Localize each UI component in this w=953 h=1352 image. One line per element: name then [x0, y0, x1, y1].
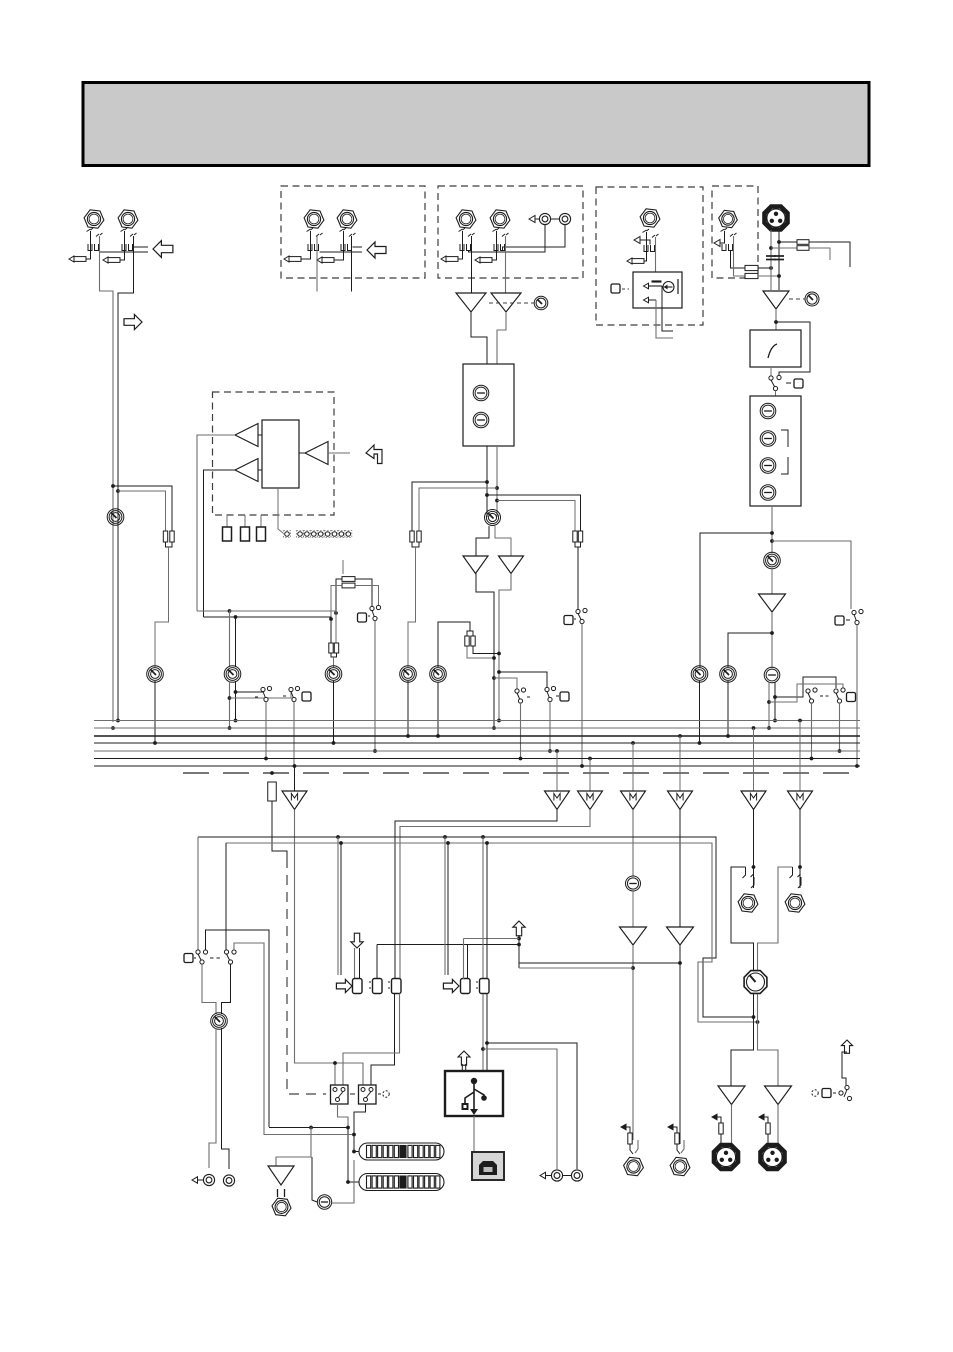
rec out arrow	[192, 1177, 198, 1183]
LED meter R	[359, 1174, 444, 1191]
jack phones L	[738, 894, 758, 912]
select box SB2	[359, 1085, 377, 1104]
resistor R-bal-a	[465, 636, 469, 646]
ref arrow A1	[284, 256, 301, 262]
wire twotrack b	[487, 1043, 577, 1169]
wire S-rec-a out	[202, 964, 216, 1014]
node M6 pickup	[752, 726, 756, 730]
amp U2 line R	[491, 293, 521, 312]
connector K1	[353, 979, 363, 994]
node M1 pickup	[293, 764, 297, 768]
ref bent arrow fx R	[668, 1124, 677, 1133]
node J pair R bus	[116, 719, 120, 723]
node M6 jack	[752, 865, 756, 869]
wire branch L to resistor	[113, 486, 172, 531]
dash S-lowcut	[786, 382, 791, 384]
node S-ch-b bus	[519, 757, 523, 761]
RCA 2track R	[571, 1170, 582, 1181]
wire hp pot link	[332, 1160, 354, 1203]
node mic a	[769, 266, 773, 270]
wire RDa to node	[758, 267, 771, 269]
pot PB channelB mon	[430, 666, 447, 683]
dip option circles	[284, 531, 352, 538]
pot P10 pan	[764, 667, 780, 683]
rec arrow wire	[198, 1179, 204, 1181]
jack J1 (line in L)	[84, 210, 104, 228]
switch S-lowcut	[769, 375, 781, 390]
node M7 pickup	[798, 719, 802, 723]
jack J2 (line in R)	[118, 210, 138, 228]
wire fxout L r	[630, 1144, 633, 1154]
wire bal to potB	[438, 622, 470, 667]
wire aux sw a	[236, 690, 264, 692]
node st-a rail2	[485, 493, 489, 497]
jack J1 switching contacts	[87, 228, 103, 251]
wire alt rail b	[234, 943, 264, 1135]
jack C1 contacts	[643, 229, 659, 252]
wire S-pan-b bus	[839, 703, 841, 751]
node pad a	[777, 240, 781, 244]
dash S-ch-a	[556, 695, 559, 697]
wire meter1 stub	[354, 1135, 359, 1152]
resistor R-pad-a	[797, 240, 809, 245]
bus line 4	[94, 742, 860, 744]
switch S-pan-b	[834, 688, 845, 703]
node PB bus	[436, 734, 440, 738]
node mic b	[777, 274, 781, 278]
jack A1	[304, 210, 324, 228]
wire M6 out	[753, 810, 755, 889]
mute gate bar	[652, 280, 662, 282]
wire P11 down a	[229, 681, 231, 728]
wire RDb to node	[758, 275, 779, 277]
bent arrow fx return	[366, 445, 382, 464]
capacitor C2 b	[774, 259, 784, 261]
resistor R-sum-a	[163, 531, 167, 542]
wire B2 ring down	[505, 236, 507, 293]
node U7 tap	[631, 966, 635, 970]
switch S-rec-a	[196, 950, 208, 964]
wire K3 out a	[371, 994, 395, 1086]
wire A lower	[320, 251, 363, 253]
XLR main out R	[761, 1145, 785, 1169]
node aux sw tap a	[234, 690, 238, 694]
switch S-aux1	[261, 686, 272, 701]
small box L2	[241, 527, 250, 541]
wire M1 out	[295, 810, 336, 1086]
SB2 contacts	[361, 1088, 373, 1102]
wire mon line b	[264, 1134, 354, 1136]
pot P1 stereo level	[107, 509, 124, 526]
lowcut curve	[768, 344, 777, 358]
bus line 2	[94, 727, 860, 729]
resistor R-D-b	[745, 273, 758, 278]
wire S-mute bus	[856, 625, 858, 767]
node bal a	[492, 656, 496, 660]
switch S-ch-a	[545, 686, 556, 701]
wire M7 out	[799, 810, 801, 889]
USB trident icon	[462, 1078, 487, 1115]
M-amp M1 main	[282, 791, 307, 810]
wire C1 ring to box	[655, 237, 657, 281]
dash S-rec	[210, 957, 222, 959]
jack A2 contacts	[340, 228, 356, 251]
wire pan L	[768, 682, 770, 728]
wire st merge	[412, 542, 419, 547]
switch S-pan-a	[806, 688, 817, 703]
jack B2 contacts	[493, 228, 509, 251]
dashed aux box	[213, 392, 335, 515]
node rail tap5	[481, 835, 485, 839]
wire fx pair down a	[335, 613, 337, 643]
wire U11 out	[777, 1105, 779, 1146]
arrow at D1	[714, 240, 720, 247]
EQ bracket high	[781, 430, 788, 447]
wire U1 out	[471, 312, 487, 364]
node pan L bus	[767, 726, 771, 730]
wire play pair b	[359, 948, 361, 979]
wire contacts to arrow lower	[100, 251, 149, 253]
EQ pot high2	[760, 431, 776, 447]
wire usb pair b	[486, 843, 488, 978]
amp U9 monitor	[268, 1166, 294, 1185]
switch S-aux2	[289, 686, 300, 701]
bus line 5	[94, 750, 860, 752]
wire twotrack a	[483, 1049, 557, 1169]
wire tap y963	[519, 962, 680, 964]
wire A2 tip	[334, 231, 344, 260]
amp U10 spk L	[718, 1086, 745, 1105]
SB1 contacts	[333, 1088, 345, 1102]
RCA 2track L	[551, 1170, 562, 1181]
ref bent arrow L	[712, 1114, 721, 1123]
node pan R bus	[773, 719, 777, 723]
open arrow above usb box	[458, 1051, 470, 1065]
wire pad top2	[809, 242, 850, 267]
EQ box mic channel	[750, 396, 801, 506]
wire mute out gray	[656, 300, 673, 338]
pot P11 monitor lvl	[224, 666, 241, 683]
mute arrow 2	[644, 297, 649, 303]
switch S-fx	[370, 605, 381, 620]
arrow wire D1	[720, 231, 725, 243]
wire mon merge	[575, 542, 581, 547]
wire bal bracket	[467, 631, 473, 636]
open arrow to rec	[336, 979, 352, 992]
node P12 bus	[332, 741, 336, 745]
wire rec pair a	[209, 1028, 216, 1168]
gang dash K3b	[388, 987, 390, 989]
open arrow usb send	[513, 921, 525, 936]
wire J1 ring down	[100, 236, 114, 722]
open arrow phantom	[841, 1040, 852, 1053]
dashed box D	[712, 186, 758, 278]
node U3 bus	[492, 726, 496, 730]
wire M3 in	[589, 759, 591, 792]
node branch R	[116, 489, 120, 493]
node U8 tap	[678, 961, 682, 965]
wire tap2 down	[340, 843, 342, 975]
node lowcut in	[774, 320, 778, 324]
wire fx jack L	[635, 1140, 638, 1153]
node mic split2	[770, 539, 774, 543]
wire P5 split R	[495, 526, 511, 556]
wire tap4 down	[447, 843, 449, 975]
wire P16 down b	[758, 994, 779, 1086]
node S-fx bus	[373, 749, 377, 753]
wire fx res right a	[355, 579, 372, 606]
jack monitor out	[272, 1198, 291, 1216]
wire D1 a	[731, 251, 746, 268]
gain pot P7	[805, 292, 819, 306]
wire EQ out pair a	[486, 446, 488, 517]
wire mic mute tap	[772, 541, 851, 609]
dash S-rec2	[194, 957, 196, 959]
wire P11 down b	[235, 681, 237, 721]
LED meter L	[359, 1143, 444, 1160]
node st-a rail1	[485, 480, 489, 484]
resistor R-mon-a	[573, 531, 577, 542]
mic preamp U5	[763, 291, 789, 309]
capacitor C1 b	[766, 259, 776, 261]
RCA arrow	[529, 216, 535, 223]
dash link boxes	[350, 1093, 357, 1095]
wire fx jack R	[681, 1140, 684, 1153]
small box L1	[223, 527, 232, 541]
pot P14 rec level	[211, 1013, 228, 1030]
node rail tap4	[446, 841, 450, 845]
wire S-aux1 bus	[265, 702, 267, 759]
dash S-aux1	[255, 696, 258, 698]
wire U4 out	[499, 574, 511, 721]
wire fx pair down b	[330, 619, 332, 643]
wire A2 link	[258, 469, 262, 471]
node usb send b	[517, 943, 521, 947]
resistor R-st-a	[410, 531, 414, 542]
wire main to sel2	[335, 1063, 363, 1085]
dashed gang U2-P3	[489, 302, 534, 304]
wire aux L right	[197, 610, 230, 612]
wire usb send v	[518, 935, 520, 968]
wire S-mon to bus	[581, 624, 583, 767]
dash S-aux2	[283, 695, 286, 697]
node S-ch-a bus	[548, 749, 552, 753]
wire pan tap b	[494, 678, 517, 689]
jack A2	[337, 210, 357, 228]
wire meter2 stub	[348, 1128, 359, 1183]
EQ pot comp	[760, 403, 776, 419]
resistor R-fxout-L	[628, 1133, 632, 1144]
wire A2 out	[204, 470, 236, 617]
wire K4 feed b	[467, 945, 469, 980]
wire U5 out	[775, 309, 777, 330]
wire M5 out	[679, 810, 681, 928]
amp U4 post R	[499, 556, 524, 574]
wire lowcut bypass	[776, 322, 810, 376]
wire fx res left b	[331, 586, 342, 620]
bus line 3	[94, 735, 860, 737]
resistor R-out-L	[719, 1123, 723, 1134]
wire mute out dark	[662, 286, 673, 331]
wire K2 feed	[376, 945, 378, 980]
capacitor C2	[774, 255, 784, 257]
node U4 bus	[497, 719, 501, 723]
pot P8 aux	[691, 666, 708, 683]
wire balance res R	[473, 646, 499, 654]
jack D1 contacts	[721, 228, 737, 251]
pot P13 phones lvl	[626, 876, 641, 891]
mute channel	[649, 285, 662, 287]
wire P5 split L	[476, 526, 489, 556]
mute arrow 1	[644, 283, 649, 289]
wire mic aux tap	[700, 533, 772, 667]
resistor R-fx-a	[342, 577, 355, 582]
RCA rec out R	[223, 1175, 234, 1186]
wire K3 out b	[343, 994, 400, 1086]
solo dashed bus	[183, 772, 860, 774]
wire U2 out	[497, 312, 506, 364]
dash S-mute	[846, 619, 850, 621]
wire B1 tip	[458, 231, 463, 259]
hp coupling bars	[277, 1189, 279, 1197]
small box L3	[257, 527, 266, 541]
node pot join R	[756, 1020, 760, 1024]
pot P9 monitor	[720, 666, 737, 683]
resistor R-st-b	[417, 531, 421, 542]
wire usb pair a	[482, 837, 484, 978]
wire st tap right a	[487, 495, 581, 531]
wire A1 ring stub	[316, 236, 318, 292]
ref bent arrow R	[759, 1114, 768, 1123]
mute logic box	[633, 272, 682, 308]
node meter2 feed	[346, 1180, 350, 1184]
node S-aux1 bus	[264, 757, 268, 761]
gain pot P3	[534, 296, 548, 310]
node bal b	[497, 652, 501, 656]
button S-phantom	[822, 1089, 831, 1098]
resistor R-mon-b	[578, 531, 582, 542]
node usb out b	[485, 1041, 489, 1045]
dash S-mon	[574, 618, 576, 620]
node fx a	[334, 611, 338, 615]
node M7 jack	[798, 865, 802, 869]
wire xlr pin3	[778, 230, 780, 290]
phones jack L hook	[743, 867, 755, 888]
wire U8 down	[679, 945, 681, 1140]
node rail tap2	[339, 841, 343, 845]
select box SB1	[331, 1085, 349, 1104]
wire P6 out	[771, 568, 773, 594]
node P9 bus	[726, 734, 730, 738]
wire mon line a	[269, 1127, 348, 1129]
wire tap1 down	[337, 837, 339, 975]
phones jack R outline	[758, 867, 793, 975]
wire to hp pot	[312, 1157, 317, 1202]
node pad b	[769, 246, 773, 250]
wire R-out-L	[721, 1134, 724, 1147]
wire pan R	[774, 682, 776, 721]
jack fx out R	[670, 1157, 690, 1175]
USB-B connector	[472, 1152, 504, 1180]
wire fx merge	[331, 653, 337, 657]
connector K4	[461, 979, 471, 994]
dash S-fx	[368, 615, 370, 617]
node J pair L bus	[111, 726, 115, 730]
USB audio box	[445, 1071, 503, 1116]
wire U6 out	[771, 612, 773, 668]
wire A3 link	[299, 452, 305, 454]
wire mono sum down	[155, 547, 169, 667]
resistor R-D-a	[745, 265, 758, 270]
gang dash K5b	[476, 987, 478, 989]
wire usb to conn	[473, 1116, 475, 1152]
node mon b	[352, 1133, 356, 1137]
node M3 pickup	[588, 757, 592, 761]
M-amp M7 spk R	[788, 791, 813, 810]
wire tap3 down	[444, 837, 446, 975]
button S-aux2	[302, 692, 311, 701]
mute bar right	[677, 279, 679, 294]
wire K4 feed a	[463, 939, 465, 980]
wire PB bus	[437, 682, 439, 736]
pot P6 mic level	[764, 552, 781, 569]
pot P2 mono level	[147, 666, 164, 683]
bus line 6	[94, 758, 860, 760]
wire RCA-R down to ch	[503, 225, 566, 251]
wire sum merge	[166, 542, 173, 547]
node pan tap2	[767, 700, 771, 704]
reference resistor arrow under J1	[69, 256, 86, 262]
open arrow usb play	[351, 933, 363, 948]
wire alt rail a	[206, 930, 270, 1127]
node branch L	[111, 484, 115, 488]
resistor R-pad-b	[797, 246, 809, 251]
RCA link wire	[551, 218, 559, 220]
node S-pan-a bus	[810, 757, 814, 761]
EQ pot low	[473, 412, 489, 428]
node mic split1	[770, 531, 774, 535]
jack A1 contacts	[307, 228, 323, 251]
wire RCA-L down to ch	[469, 225, 546, 252]
EQ box stereo channel	[463, 364, 514, 446]
aux amp A2	[235, 459, 258, 482]
resistor R-out-R	[766, 1123, 770, 1134]
2track link	[546, 1175, 552, 1177]
wire aux L down	[229, 611, 231, 667]
2track link2	[563, 1175, 571, 1177]
resistor R-sum-b	[170, 531, 174, 542]
wire M1 in	[294, 766, 296, 791]
wire rail L down sw	[197, 837, 199, 950]
node st-b rail2	[495, 499, 499, 503]
jack B2	[490, 210, 510, 228]
button S-mon	[564, 616, 573, 625]
EQ bracket low	[781, 457, 788, 474]
resistor R-solo	[268, 782, 277, 801]
node P4 bus	[406, 734, 410, 738]
node M4 pickup	[631, 741, 635, 745]
switch S-rec-b	[224, 950, 236, 964]
wire pad bot	[771, 247, 797, 249]
wire usb pair b2	[486, 994, 488, 1071]
connector K2	[373, 979, 383, 994]
wire D1 b	[734, 236, 746, 276]
wire aux R down	[235, 617, 237, 667]
jack J2 switching contacts	[121, 228, 137, 251]
wire C1 tip	[644, 232, 647, 261]
dashed box C	[596, 187, 703, 325]
open arrow to channel	[124, 314, 142, 329]
